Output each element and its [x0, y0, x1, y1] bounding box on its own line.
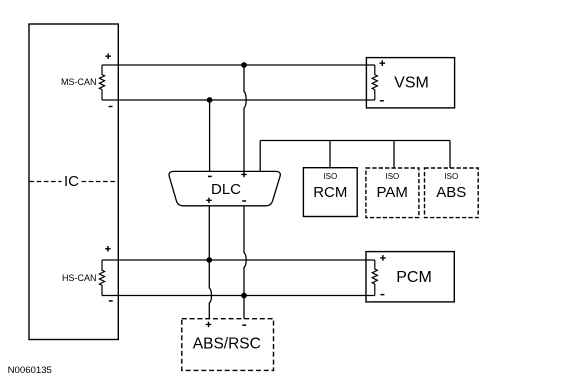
resistor IC MS-CAN terminator — [99, 65, 104, 100]
label + PCM — [380, 255, 386, 261]
connector DLC body — [169, 171, 280, 205]
label - DLC top pin — [208, 175, 212, 177]
wire DLC pin(-) up to MS-CAN low — [209, 100, 211, 172]
node junction MS-CAN- / DLC wire — [207, 97, 213, 103]
svg-text:HS-CAN: HS-CAN — [62, 273, 97, 283]
label + HS-CAN — [105, 246, 111, 252]
wire HS-CAN low (-) bus — [102, 295, 375, 297]
block IC — [29, 24, 118, 340]
svg-text:ISO: ISO — [386, 172, 400, 181]
svg-text:VSM: VSM — [394, 74, 429, 91]
resistor PCM terminator — [372, 260, 377, 296]
block VSM — [366, 58, 454, 108]
block PAM (dashed) — [366, 168, 419, 218]
svg-text:ABS/RSC: ABS/RSC — [193, 336, 261, 353]
svg-text:RCM: RCM — [313, 184, 347, 201]
block PCM — [366, 252, 454, 302]
node IC dashed divider — [30, 181, 118, 183]
wire DLC bottom(+) down to ABS/RSC (hop over HS low) — [209, 206, 211, 319]
svg-text:N0060135: N0060135 — [8, 365, 52, 376]
label - DLC bottom pin — [242, 200, 246, 202]
wire PAM drop — [393, 141, 395, 169]
label - PCM — [381, 294, 385, 296]
node junction HS-CAN+ / DLC wire — [206, 257, 212, 263]
node junction HS-CAN- / DLC wire — [241, 293, 247, 299]
label + MS-CAN — [105, 53, 111, 59]
svg-text:DLC: DLC — [211, 181, 241, 198]
wire ISO bus horizontal — [260, 140, 450, 142]
label + VSM — [380, 60, 386, 66]
label - MS-CAN — [109, 106, 113, 108]
wire DLC pin(+) up to MS-CAN high (hop over low line) — [244, 65, 246, 172]
wire DLC bottom(-) down to ABS/RSC (hop over HS high) — [244, 206, 246, 319]
label + DLC top pin — [241, 172, 247, 178]
resistor IC HS-CAN terminator — [99, 260, 104, 296]
wire ABS drop — [449, 141, 451, 169]
svg-text:ABS: ABS — [436, 184, 466, 201]
wire MS-CAN low (-) bus — [102, 99, 375, 101]
svg-text:IC: IC — [64, 173, 79, 190]
svg-text:PAM: PAM — [376, 184, 407, 201]
svg-text:PCM: PCM — [396, 269, 432, 286]
node junction MS-CAN+ / DLC wire — [241, 62, 247, 68]
svg-text:MS-CAN: MS-CAN — [61, 77, 97, 87]
label - VSM — [380, 100, 384, 102]
block RCM — [303, 168, 357, 217]
label + ABS/RSC — [206, 322, 212, 328]
wire HS-CAN high (+) bus — [102, 259, 375, 261]
svg-text:ISO: ISO — [323, 172, 337, 181]
label - HS-CAN — [109, 300, 113, 302]
block ABS (dashed) — [425, 168, 479, 218]
svg-text:ISO: ISO — [444, 172, 458, 181]
resistor VSM terminator — [372, 65, 377, 100]
label + DLC bottom pin — [206, 198, 212, 204]
label - ABS/RSC — [242, 324, 246, 326]
wire RCM drop — [329, 141, 331, 168]
wire MS-CAN high (+) bus — [102, 64, 375, 66]
wire DLC to ISO bus riser — [259, 141, 261, 172]
block ABS/RSC (dashed) — [182, 319, 274, 371]
